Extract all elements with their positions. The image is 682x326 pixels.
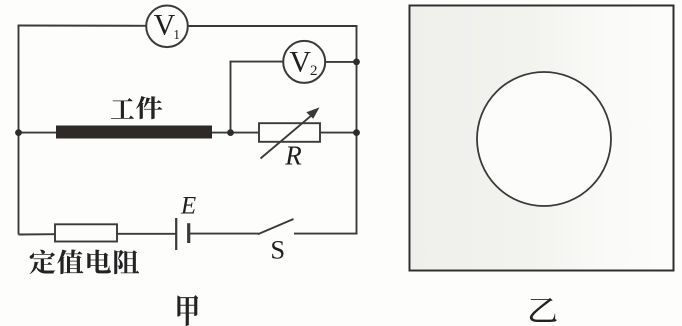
svg-text:R: R bbox=[284, 140, 302, 170]
svg-text:2: 2 bbox=[310, 63, 318, 79]
svg-text:S: S bbox=[270, 234, 285, 264]
svg-text:E: E bbox=[180, 193, 196, 220]
svg-text:V: V bbox=[289, 45, 311, 78]
svg-text:1: 1 bbox=[173, 27, 180, 42]
